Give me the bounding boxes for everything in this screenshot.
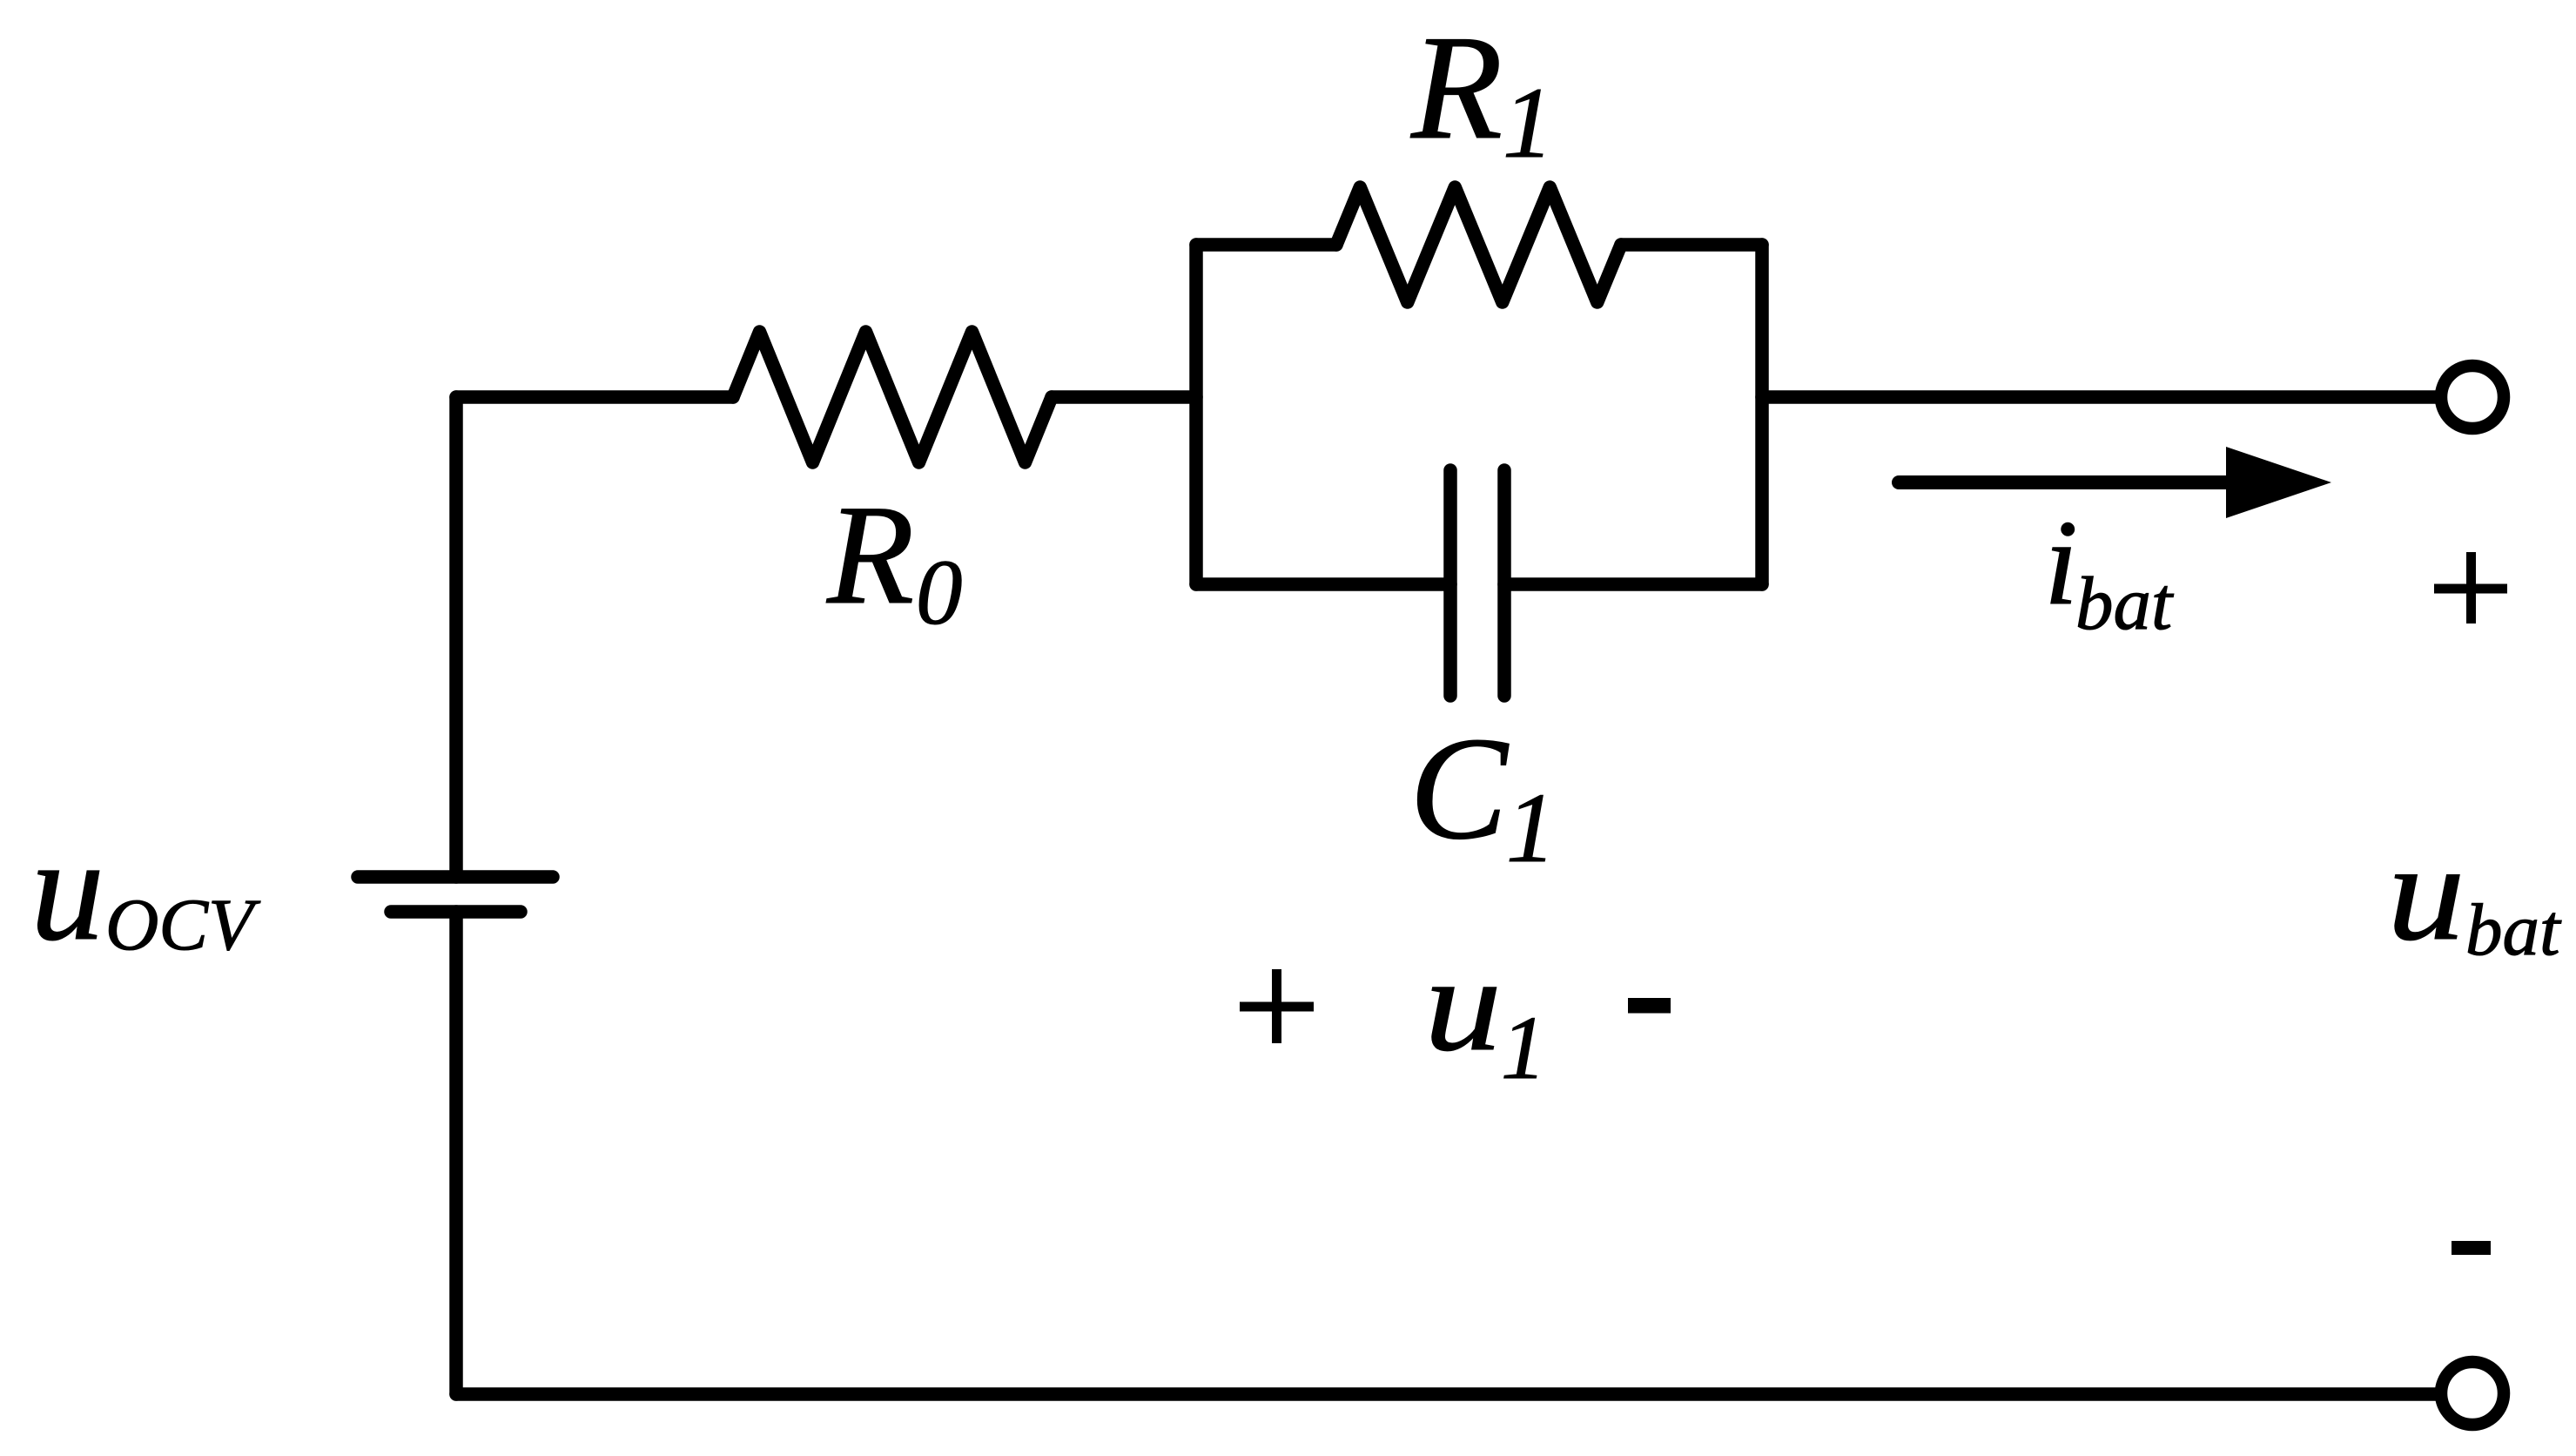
battery voltage source u_OCV (short negative plate) xyxy=(391,905,521,919)
current arrow i_bat xyxy=(1899,447,2331,518)
wire: left rail lower segment (battery - down to bottom rail) xyxy=(449,912,463,1394)
wire: bottom rail to negative terminal xyxy=(456,1387,2436,1401)
wire: box bottom edge right segment from capacitor xyxy=(1504,577,1762,591)
svg-text:R: R xyxy=(1410,5,1503,171)
plus sign (u1 polarity) xyxy=(1240,969,1314,1043)
minus sign (u1 polarity) xyxy=(1628,998,1671,1014)
svg-text:u: u xyxy=(1424,930,1502,1080)
label u_bat xyxy=(2387,815,2562,971)
plus sign (u_bat polarity at positive terminal) xyxy=(2434,552,2507,624)
wire: top lead from corner to R0 xyxy=(456,390,733,404)
wire: R0 to RC box node A xyxy=(1052,390,1196,404)
wire: left rail upper segment (battery + to top-left corner) xyxy=(449,397,463,877)
svg-text:bat: bat xyxy=(2075,561,2174,645)
label u1 xyxy=(1424,930,1546,1098)
svg-text:0: 0 xyxy=(916,542,963,644)
label R1 xyxy=(1410,5,1554,179)
label i_bat xyxy=(2044,495,2174,645)
minus sign (u_bat polarity at negative terminal) xyxy=(2452,1241,2491,1255)
label R0 xyxy=(826,476,963,644)
svg-text:R: R xyxy=(826,476,914,634)
battery voltage source u_OCV (long positive plate) xyxy=(358,870,553,884)
svg-text:1: 1 xyxy=(1501,998,1546,1098)
label C1 xyxy=(1409,706,1556,883)
resistor R0 zigzag xyxy=(733,332,1052,462)
svg-text:OCV: OCV xyxy=(105,884,261,966)
svg-text:u: u xyxy=(30,807,104,971)
wire: box top edge left segment xyxy=(1196,238,1336,252)
label u_OCV xyxy=(30,807,261,971)
svg-text:i: i xyxy=(2044,495,2078,630)
svg-text:C: C xyxy=(1409,706,1510,870)
resistor R1 zigzag xyxy=(1336,187,1621,302)
wire: RC box right edge xyxy=(1755,245,1769,584)
positive terminal (open circle) xyxy=(2441,366,2504,428)
wire: box bottom edge left segment to capacitor xyxy=(1196,577,1450,591)
svg-text:1: 1 xyxy=(1506,772,1556,883)
svg-text:1: 1 xyxy=(1503,67,1554,179)
svg-text:bat: bat xyxy=(2465,889,2562,971)
svg-text:u: u xyxy=(2387,815,2465,969)
capacitor C1 (two vertical plates) xyxy=(1450,470,1504,696)
negative terminal (open circle) xyxy=(2441,1362,2504,1425)
wire: RC box left edge xyxy=(1189,245,1203,584)
wire: box top edge right segment xyxy=(1621,238,1762,252)
wire: RC box to positive terminal xyxy=(1762,390,2436,404)
